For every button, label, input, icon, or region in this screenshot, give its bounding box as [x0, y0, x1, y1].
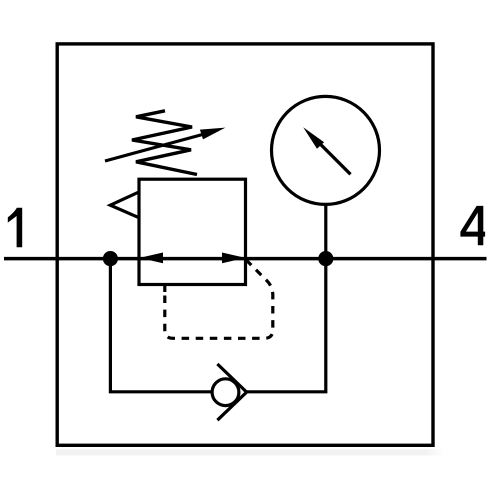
wire: right bypass down and across [247, 259, 326, 392]
gauge needle shaft [319, 142, 351, 174]
adjustment arrow shaft [105, 133, 208, 161]
node: left junction [103, 251, 118, 266]
check valve ball [212, 379, 239, 406]
check valve seat [217, 364, 246, 420]
pressure gauge G1 [272, 96, 380, 204]
wire: left bypass down and across [110, 259, 213, 392]
spring (adjustment) [132, 111, 197, 175]
wire: main flow line 1 to 4 [4, 257, 487, 261]
enclosure box [57, 44, 433, 445]
adjustment arrow head [200, 128, 226, 140]
port label 4 [460, 206, 485, 245]
arrow right (flow, inside regulator) [222, 253, 246, 264]
arrow left (flow, inside regulator) [140, 253, 164, 264]
node: right junction [318, 251, 333, 266]
port label 1 [8, 208, 22, 247]
vent triangle (relief port) [110, 192, 139, 218]
pilot line stub (solid) [163, 285, 166, 293]
wire: gauge stem [324, 205, 327, 259]
pilot line (dashed) [165, 260, 273, 339]
gauge needle head [303, 127, 324, 149]
regulator body R1 [139, 179, 246, 284]
